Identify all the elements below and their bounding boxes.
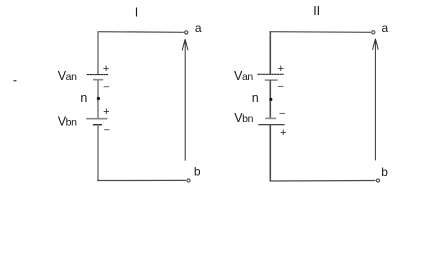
svg-text:+: + bbox=[278, 63, 284, 75]
battery Van I minus plate bbox=[93, 79, 103, 81]
wire bottom I bbox=[97, 179, 186, 181]
wire top I bbox=[97, 31, 184, 34]
svg-text:Van: Van bbox=[58, 69, 77, 83]
battery Vbn II plus plate bbox=[258, 124, 284, 126]
wire top II bbox=[270, 31, 371, 34]
terminal b I bbox=[187, 179, 190, 182]
wire left lower II bbox=[269, 125, 271, 181]
svg-text:n: n bbox=[80, 91, 87, 105]
svg-text:+: + bbox=[280, 127, 286, 139]
current arrow II bbox=[373, 39, 379, 161]
current arrow I bbox=[182, 39, 188, 160]
battery Vbn I minus plate bbox=[93, 124, 102, 126]
terminal a I bbox=[185, 31, 188, 34]
battery Van I plus plate bbox=[87, 74, 108, 76]
svg-text:Van: Van bbox=[234, 69, 253, 83]
svg-text:I: I bbox=[135, 6, 138, 20]
battery Van II minus plate bbox=[265, 79, 278, 81]
stray mark bbox=[14, 80, 17, 81]
node n dot I bbox=[97, 97, 100, 100]
svg-text:–: – bbox=[280, 108, 286, 119]
svg-text:a: a bbox=[195, 21, 202, 35]
battery Van II plus plate bbox=[258, 73, 284, 75]
svg-text:II: II bbox=[313, 4, 320, 18]
svg-text:n: n bbox=[252, 91, 259, 105]
svg-text:b: b bbox=[194, 164, 201, 178]
wire left lower I bbox=[97, 125, 99, 181]
wire Van to Vbn II bbox=[269, 80, 271, 118]
svg-text:–: – bbox=[104, 81, 110, 92]
svg-text:+: + bbox=[103, 106, 109, 118]
svg-text:Vbn: Vbn bbox=[58, 115, 77, 129]
svg-text:Vbn: Vbn bbox=[234, 111, 253, 125]
wire left II bbox=[269, 31, 271, 74]
terminal a II bbox=[372, 31, 375, 34]
node n dot II bbox=[269, 98, 272, 101]
svg-text:a: a bbox=[382, 21, 389, 35]
wire Van to Vbn I bbox=[97, 80, 99, 119]
svg-text:–: – bbox=[104, 125, 110, 136]
terminal b II bbox=[376, 179, 379, 182]
wire bottom II bbox=[270, 180, 376, 183]
battery Vbn II minus plate bbox=[265, 117, 276, 119]
wire left I bbox=[97, 31, 99, 74]
svg-text:b: b bbox=[381, 165, 388, 179]
battery Vbn I plus plate bbox=[86, 118, 107, 120]
svg-text:–: – bbox=[278, 81, 284, 92]
svg-text:+: + bbox=[103, 63, 109, 75]
